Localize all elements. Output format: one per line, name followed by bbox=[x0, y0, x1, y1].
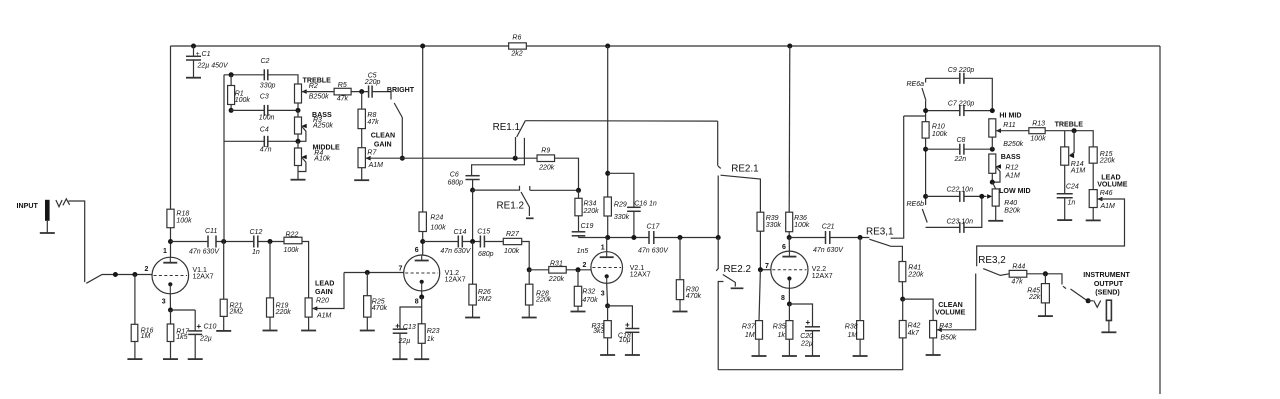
svg-text:OUTPUT: OUTPUT bbox=[1094, 280, 1124, 288]
capacitor C20 bbox=[789, 304, 812, 327]
svg-text:C22 10n: C22 10n bbox=[947, 187, 974, 194]
wire V2.1 supply riser bbox=[607, 46, 609, 197]
svg-text:12AX7: 12AX7 bbox=[630, 272, 651, 279]
capacitor C16 bbox=[608, 173, 634, 207]
svg-text:2M2: 2M2 bbox=[229, 308, 244, 315]
resistor R35 bbox=[788, 304, 790, 321]
node grid wire bbox=[113, 272, 118, 277]
ground R37 bbox=[752, 355, 767, 357]
svg-text:VOLUME: VOLUME bbox=[935, 309, 966, 317]
ground R32 bbox=[571, 311, 586, 313]
svg-text:680p: 680p bbox=[478, 251, 494, 258]
ground output jack bbox=[1101, 331, 1116, 333]
wire R41 to node bbox=[901, 282, 903, 299]
svg-text:RE2.2: RE2.2 bbox=[724, 264, 751, 275]
capacitor C7 bbox=[959, 105, 961, 116]
node V2.2 cathode bbox=[787, 302, 792, 307]
ground R20 bbox=[301, 330, 316, 332]
svg-text:1n5: 1n5 bbox=[577, 248, 589, 255]
svg-text:1k5: 1k5 bbox=[176, 334, 187, 341]
capacitor C18 bbox=[608, 306, 633, 329]
relay contact RE3.1 bbox=[869, 239, 902, 261]
svg-text:R37: R37 bbox=[742, 324, 756, 331]
svg-text:A10k: A10k bbox=[313, 156, 330, 163]
node R11 top bbox=[990, 108, 995, 113]
svg-text:A1M: A1M bbox=[1070, 168, 1086, 175]
svg-text:C14: C14 bbox=[454, 229, 467, 236]
svg-text:R8: R8 bbox=[367, 112, 376, 119]
svg-text:INPUT: INPUT bbox=[17, 202, 39, 210]
svg-text:R2: R2 bbox=[309, 83, 318, 90]
svg-text:C23 10n: C23 10n bbox=[947, 219, 974, 226]
svg-text:A1M: A1M bbox=[368, 162, 384, 169]
wire R31 to V2.1 grid bbox=[529, 269, 591, 271]
node C7 left bbox=[923, 108, 928, 113]
potentiometer R12 BASS bbox=[989, 154, 996, 173]
svg-text:7: 7 bbox=[765, 263, 769, 270]
capacitor C22 bbox=[959, 191, 961, 202]
svg-text:100k: 100k bbox=[235, 97, 251, 104]
potentiometer R11 HI MID bbox=[989, 119, 996, 137]
wire lead stack input bbox=[904, 115, 926, 117]
svg-text:B250k: B250k bbox=[1003, 141, 1023, 148]
svg-text:R42: R42 bbox=[908, 323, 921, 330]
svg-text:R23: R23 bbox=[427, 328, 440, 335]
svg-text:47n 630V: 47n 630V bbox=[189, 249, 220, 256]
svg-text:RE3,1: RE3,1 bbox=[866, 227, 894, 238]
svg-text:220k: 220k bbox=[538, 165, 555, 172]
svg-text:C21: C21 bbox=[822, 224, 835, 231]
svg-text:R36: R36 bbox=[794, 215, 807, 222]
capacitor C13 bbox=[400, 307, 422, 329]
ground C24 bbox=[1057, 219, 1072, 221]
potentiometer R20 LEAD GAIN bbox=[308, 297, 310, 299]
potentiometer R4 MIDDLE bbox=[297, 141, 299, 148]
svg-text:1: 1 bbox=[163, 248, 167, 255]
resistor R10 bbox=[922, 122, 929, 138]
wire C9 row bbox=[926, 78, 993, 110]
ground C20 bbox=[805, 355, 820, 357]
capacitor C23 bbox=[959, 222, 961, 233]
svg-text:CLEAN: CLEAN bbox=[371, 132, 395, 140]
relay contact RE2.1 bbox=[718, 121, 721, 168]
node jack tip bbox=[1086, 298, 1091, 303]
svg-text:RE6a: RE6a bbox=[907, 81, 925, 88]
triode V1.1 bbox=[152, 257, 189, 294]
node C16 bottom bbox=[631, 235, 636, 240]
node R34 top bbox=[576, 188, 581, 193]
svg-text:R13: R13 bbox=[1032, 121, 1045, 128]
resistor R5 bbox=[334, 88, 351, 95]
potentiometer R46 LEAD VOLUME bbox=[1089, 190, 1097, 208]
node V2.1 plate bbox=[605, 235, 610, 240]
svg-text:7: 7 bbox=[399, 266, 403, 273]
svg-text:+: + bbox=[197, 322, 202, 331]
svg-text:INSTRUMENT: INSTRUMENT bbox=[1083, 271, 1130, 279]
svg-text:R27: R27 bbox=[506, 231, 520, 238]
svg-text:1n: 1n bbox=[1068, 200, 1076, 207]
ground R4 bbox=[291, 179, 306, 181]
svg-text:470k: 470k bbox=[372, 305, 388, 312]
svg-text:R44: R44 bbox=[1012, 263, 1025, 270]
wire V2.1 plate stem bbox=[606, 238, 608, 252]
svg-text:C6: C6 bbox=[450, 172, 459, 179]
svg-text:47k: 47k bbox=[337, 95, 349, 102]
node R1 top bbox=[229, 72, 234, 77]
svg-text:100k: 100k bbox=[1030, 136, 1046, 143]
svg-text:3: 3 bbox=[162, 299, 166, 306]
capacitor C10 bbox=[171, 309, 196, 311]
ground input jack bbox=[40, 232, 55, 234]
wire V1.1 plate supply riser bbox=[170, 46, 172, 257]
svg-text:330k: 330k bbox=[614, 214, 630, 221]
ground R23 bbox=[414, 358, 429, 360]
svg-text:R12: R12 bbox=[1005, 165, 1018, 172]
svg-text:4k7: 4k7 bbox=[908, 330, 920, 337]
svg-text:R43: R43 bbox=[939, 323, 952, 330]
svg-text:C17: C17 bbox=[647, 224, 661, 231]
svg-text:RE2.1: RE2.1 bbox=[731, 164, 759, 175]
node R30 top bbox=[678, 235, 683, 240]
relay contact RE1.2 bbox=[473, 186, 579, 191]
svg-text:100k: 100k bbox=[794, 222, 810, 229]
svg-text:C7 220p: C7 220p bbox=[948, 101, 975, 108]
ground R17 bbox=[163, 358, 178, 360]
svg-text:6: 6 bbox=[782, 244, 786, 251]
svg-text:RE1.2: RE1.2 bbox=[497, 201, 524, 212]
wire R2 wiper to R5 bbox=[302, 91, 335, 93]
resistor R31 bbox=[549, 267, 567, 274]
wire V2.2 plate bbox=[789, 237, 869, 239]
potentiometer R3 BASS bbox=[297, 110, 299, 117]
relay contact RE6b bbox=[922, 209, 927, 223]
resistor R41 bbox=[899, 262, 906, 282]
svg-text:C9 220p: C9 220p bbox=[948, 67, 975, 74]
node R28 top bbox=[527, 267, 532, 272]
svg-text:47n 630V: 47n 630V bbox=[813, 247, 844, 254]
wire R5 to C5 bbox=[351, 91, 369, 93]
wire V1.1 cathode bbox=[169, 294, 171, 310]
svg-text:470k: 470k bbox=[582, 297, 598, 304]
node C8 left bbox=[923, 147, 928, 152]
wire RE riser to RE2.2 bbox=[716, 238, 718, 271]
svg-text:47k: 47k bbox=[367, 119, 379, 126]
wire R43 wiper to RE3.2 bbox=[937, 274, 976, 330]
svg-text:1n: 1n bbox=[252, 249, 260, 256]
svg-text:22n: 22n bbox=[954, 156, 967, 163]
wire R7 wiper to R9 bbox=[365, 157, 537, 159]
svg-text:1M: 1M bbox=[141, 333, 151, 340]
node V1.2 plate C14 bbox=[420, 239, 425, 244]
node R29 top bbox=[605, 171, 610, 176]
ground C13 bbox=[393, 358, 408, 360]
wire V1.2 plate supply riser bbox=[422, 46, 424, 255]
resistor R1 bbox=[230, 75, 232, 86]
wire R9 to R34 bbox=[555, 158, 579, 190]
capacitor C6 bbox=[466, 175, 480, 177]
svg-text:220k: 220k bbox=[907, 271, 924, 278]
potentiometer R40 LOW MID bbox=[992, 182, 995, 189]
capacitor C9 bbox=[959, 73, 961, 84]
capacitor C14 bbox=[457, 236, 459, 248]
node V2.2 plate bbox=[787, 235, 792, 240]
relay contact RE3.2 bbox=[983, 269, 1009, 276]
node C14 C15 junction bbox=[470, 239, 475, 244]
svg-text:220k: 220k bbox=[548, 276, 565, 283]
capacitor C24 bbox=[1064, 165, 1066, 194]
resistor R33 bbox=[607, 306, 609, 321]
resistor R38 bbox=[859, 238, 861, 321]
svg-text:100k: 100k bbox=[284, 247, 300, 254]
node RE riser plate wire bbox=[716, 235, 721, 240]
svg-text:220k: 220k bbox=[1099, 158, 1116, 165]
wire input to V1.1 grid bbox=[69, 201, 153, 283]
potentiometer R2 TREBLE bbox=[295, 84, 302, 103]
resistor R30 bbox=[679, 238, 681, 280]
svg-text:RE1.1: RE1.1 bbox=[493, 122, 521, 133]
ground R21 bbox=[216, 330, 231, 332]
capacitor C15 bbox=[479, 236, 481, 248]
node RE1.1 R9 bbox=[513, 156, 518, 161]
wire C7 row bbox=[926, 110, 993, 112]
wire tone stack top rail bbox=[224, 75, 298, 84]
svg-text:C15: C15 bbox=[477, 229, 490, 236]
resistor R45 bbox=[1044, 274, 1046, 284]
capacitor C1 bbox=[193, 46, 195, 56]
svg-text:2k2: 2k2 bbox=[510, 50, 522, 57]
ground R46 bbox=[1086, 219, 1101, 221]
svg-text:A250k: A250k bbox=[312, 123, 333, 130]
node C6 RE1.2 bbox=[470, 188, 475, 193]
svg-text:47n: 47n bbox=[260, 146, 272, 153]
resistor R15 bbox=[1089, 147, 1097, 163]
wire R44 to jack switch bbox=[1027, 274, 1062, 285]
ground C1 bbox=[186, 77, 201, 79]
svg-text:1: 1 bbox=[601, 245, 605, 252]
wire C8 row bbox=[926, 148, 993, 150]
resistor R22 bbox=[284, 237, 302, 244]
node C22 left bbox=[923, 194, 928, 199]
ground R38 bbox=[853, 355, 868, 357]
svg-text:22µ: 22µ bbox=[398, 338, 411, 345]
node R38 top bbox=[858, 235, 863, 240]
switch BRIGHT bbox=[394, 103, 402, 158]
wire C5 to BRIGHT switch bbox=[372, 92, 391, 100]
ground C18 bbox=[625, 354, 640, 356]
node C8 right bbox=[990, 147, 995, 152]
node B+ V2.2 bbox=[787, 44, 792, 49]
resistor R18 bbox=[167, 209, 174, 228]
svg-text:47n 630V: 47n 630V bbox=[638, 247, 669, 254]
triode V2.1 bbox=[591, 252, 623, 284]
svg-text:2M2: 2M2 bbox=[477, 296, 492, 303]
svg-text:B250k: B250k bbox=[309, 93, 329, 100]
svg-text:R40: R40 bbox=[1004, 200, 1017, 207]
node V1.1 plate / C11 bbox=[168, 239, 173, 244]
svg-text:1k: 1k bbox=[778, 332, 786, 339]
svg-text:47n 630V: 47n 630V bbox=[440, 248, 471, 255]
potentiometer R14 TREBLE bbox=[1064, 131, 1066, 147]
svg-text:R31: R31 bbox=[550, 260, 563, 267]
resistor R9 bbox=[537, 155, 555, 162]
svg-text:C13: C13 bbox=[403, 324, 416, 331]
capacitor C17 bbox=[648, 231, 650, 244]
wire C22 row bbox=[926, 195, 987, 197]
svg-text:100k: 100k bbox=[504, 248, 520, 255]
resistor R39 bbox=[757, 212, 764, 231]
wire right border bbox=[1159, 46, 1161, 394]
wire B+ top rail bbox=[171, 45, 1161, 47]
svg-text:GAIN: GAIN bbox=[374, 140, 392, 148]
svg-text:22µ 450V: 22µ 450V bbox=[197, 63, 229, 70]
potentiometer R43 CLEAN VOLUME bbox=[930, 321, 937, 338]
svg-text:12AX7: 12AX7 bbox=[445, 277, 466, 284]
svg-text:330k: 330k bbox=[766, 222, 782, 229]
ground R19 bbox=[263, 330, 278, 332]
ground R40 bbox=[988, 220, 1003, 222]
ground R35 bbox=[782, 355, 797, 357]
svg-text:1k: 1k bbox=[427, 336, 435, 343]
svg-text:RE3,2: RE3,2 bbox=[978, 255, 1005, 266]
svg-text:C20: C20 bbox=[800, 333, 813, 340]
svg-text:R32: R32 bbox=[582, 289, 595, 296]
svg-text:VOLUME: VOLUME bbox=[1097, 180, 1128, 188]
svg-text:B50k: B50k bbox=[940, 334, 956, 341]
node tone stack / R21 bbox=[221, 239, 226, 244]
resistor R8 bbox=[361, 92, 363, 110]
resistor R6 bbox=[509, 43, 527, 49]
node B+ V1.2 bbox=[420, 44, 425, 49]
svg-text:47k: 47k bbox=[1011, 279, 1023, 286]
svg-text:100n: 100n bbox=[259, 115, 275, 122]
svg-text:12AX7: 12AX7 bbox=[812, 273, 833, 280]
svg-text:22k: 22k bbox=[1028, 294, 1041, 301]
wire C6 to node bbox=[472, 180, 474, 191]
wire R46 wiper loop bbox=[977, 199, 1125, 266]
resistor R28 bbox=[528, 270, 530, 284]
svg-text:BASS: BASS bbox=[1001, 153, 1021, 161]
svg-text:+: + bbox=[625, 320, 630, 329]
svg-text:22µ: 22µ bbox=[199, 336, 212, 343]
relay contact RE2.2 bbox=[723, 275, 736, 287]
resistor R25 bbox=[366, 273, 368, 296]
wire C23 row bbox=[926, 196, 982, 227]
node TREBLE junction bbox=[1072, 128, 1077, 133]
svg-text:R46: R46 bbox=[1100, 190, 1113, 197]
wire V2.2 cathode bbox=[788, 288, 790, 304]
resistor R13 bbox=[1029, 128, 1045, 134]
svg-text:100k: 100k bbox=[430, 225, 446, 232]
ground R28 bbox=[522, 317, 537, 319]
wire C3 row bbox=[231, 109, 298, 111]
resistor R19 bbox=[269, 242, 271, 298]
svg-text:R11: R11 bbox=[1003, 122, 1015, 129]
ground R45 bbox=[1038, 315, 1053, 317]
input jack tip contact bbox=[56, 199, 70, 207]
svg-text:C3: C3 bbox=[260, 94, 269, 101]
ground R26 bbox=[465, 317, 480, 319]
svg-text:BRIGHT: BRIGHT bbox=[387, 86, 415, 94]
output jack J2 bbox=[1106, 300, 1111, 320]
svg-text:TREBLE: TREBLE bbox=[1055, 120, 1084, 128]
resistor R23 bbox=[421, 297, 423, 324]
svg-text:+: + bbox=[806, 318, 811, 327]
node R3 bottom R4 top bbox=[296, 139, 301, 144]
svg-text:100k: 100k bbox=[932, 131, 948, 138]
svg-text:R29: R29 bbox=[614, 201, 627, 208]
ground R43 bbox=[926, 354, 941, 356]
node R45 top bbox=[1043, 271, 1048, 276]
wire C19 to plate wire bbox=[578, 236, 580, 238]
svg-text:10µ: 10µ bbox=[619, 337, 631, 344]
wire V2.2 supply riser bbox=[788, 46, 791, 212]
svg-text:+ C1: + C1 bbox=[196, 51, 211, 58]
wire V2.1 cathode bbox=[606, 283, 609, 306]
resistor R37 bbox=[759, 270, 760, 321]
node bright / wiper bbox=[400, 156, 405, 161]
svg-text:C8: C8 bbox=[957, 137, 966, 144]
svg-text:1M: 1M bbox=[745, 332, 755, 339]
svg-text:R34: R34 bbox=[584, 200, 597, 207]
svg-text:C19: C19 bbox=[581, 223, 594, 230]
svg-text:LEAD: LEAD bbox=[315, 279, 334, 287]
resistor R17 bbox=[170, 310, 172, 324]
svg-text:R22: R22 bbox=[286, 232, 299, 239]
svg-text:R5: R5 bbox=[338, 82, 347, 89]
resistor R27 bbox=[503, 238, 521, 244]
svg-text:3k3: 3k3 bbox=[593, 328, 604, 335]
svg-text:C24: C24 bbox=[1066, 183, 1079, 190]
capacitor C2 bbox=[263, 69, 265, 80]
svg-text:R10: R10 bbox=[932, 123, 945, 130]
ground R33 bbox=[600, 354, 615, 356]
svg-text:HI MID: HI MID bbox=[999, 112, 1021, 120]
node V1.1 cathode bbox=[168, 308, 173, 313]
node C1 on B+ rail bbox=[191, 44, 196, 49]
svg-text:C16 1n: C16 1n bbox=[634, 200, 657, 207]
svg-text:R35: R35 bbox=[773, 324, 786, 331]
svg-text:R6: R6 bbox=[512, 35, 521, 42]
svg-text:2: 2 bbox=[583, 262, 587, 269]
wire V2.1 plate bbox=[579, 237, 719, 239]
svg-text:R24: R24 bbox=[430, 215, 443, 222]
capacitor C21 bbox=[825, 231, 827, 244]
wire lead stack left column bbox=[925, 101, 927, 205]
ground R7 bbox=[354, 179, 369, 181]
svg-text:8: 8 bbox=[781, 295, 785, 302]
resistor R26 bbox=[472, 242, 474, 285]
svg-text:A1M: A1M bbox=[1100, 203, 1116, 210]
resistor R16 bbox=[134, 275, 136, 325]
node R32 top bbox=[576, 267, 581, 272]
node R41 R42 R43 bbox=[900, 297, 905, 302]
node V2.2 grid bbox=[758, 267, 763, 272]
wire V1.2 plate to C14 C15 R27 bbox=[423, 242, 530, 270]
svg-text:220k: 220k bbox=[275, 309, 292, 316]
resistor R32 bbox=[577, 270, 579, 287]
svg-text:RE6b: RE6b bbox=[907, 201, 925, 208]
node R25 top bbox=[365, 270, 370, 275]
svg-text:680p: 680p bbox=[448, 180, 464, 187]
switch output jack contact bbox=[1063, 286, 1086, 300]
capacitor C3 bbox=[263, 105, 265, 116]
svg-text:330p: 330p bbox=[260, 82, 276, 89]
node C22 C23 junction bbox=[979, 194, 984, 199]
wire R11 wiper to R13 bbox=[996, 130, 1029, 132]
wire C6 riser to C14 C15 bbox=[472, 190, 474, 241]
resistor R36 bbox=[786, 212, 793, 232]
svg-text:220p: 220p bbox=[364, 79, 381, 86]
